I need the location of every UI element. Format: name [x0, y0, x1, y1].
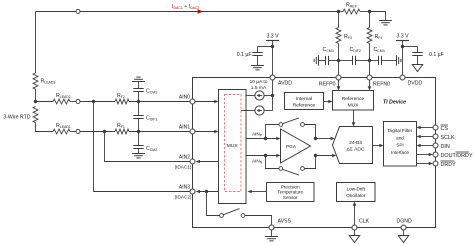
ground right of CCM4 [397, 55, 401, 65]
svg-text:AIN3: AIN3 [179, 185, 190, 191]
ground above CCM1 [132, 77, 145, 81]
pin AIN0 [179, 95, 195, 105]
ground at RREF right [379, 21, 392, 25]
wire RF2 to AIN0 pin [129, 101, 190, 103]
capacitor CCM3 [319, 47, 339, 65]
IC boundary box (TI Device) [193, 78, 436, 228]
svg-text:and: and [396, 135, 404, 140]
node AINP bypass left [264, 137, 267, 140]
ADC 24-bit delta-sigma [333, 127, 373, 164]
wire REFN0 to Reference MUX [368, 80, 372, 91]
block Low-Drift Oscillator [337, 183, 376, 202]
ground below CCM2 [132, 154, 145, 158]
svg-text:10 µA to: 10 µA to [249, 79, 267, 85]
pin DRDY [417, 161, 457, 168]
wire to AVDD bypass cap [258, 46, 273, 48]
svg-text:AVDD: AVDD [278, 81, 292, 87]
ground triangle below DVDD cap [412, 65, 422, 72]
wire left vertical to RLEAD3 [35, 12, 37, 74]
label TI Device [383, 100, 406, 106]
pin DGND [397, 219, 413, 231]
wire MUX to AIN2 out [196, 160, 219, 164]
current direction arrow (red) [198, 9, 204, 13]
wire IDAC2 to MUX dashed path [241, 110, 255, 112]
pin AVDD [270, 75, 292, 87]
node CDIF2/RF4 [368, 59, 371, 62]
resistor RREF [343, 3, 360, 14]
resistor RLEAD1 [53, 123, 71, 134]
svg-text:(IDAC2): (IDAC2) [175, 195, 192, 200]
label IDAC1 + IDAC2 (red) [172, 4, 200, 10]
supply 3.3V DVDD [396, 34, 409, 78]
node AINN bypass left [264, 154, 267, 157]
node CDIF1 bottom [137, 130, 140, 133]
pin SCLK [417, 134, 455, 141]
switch to AVSS [220, 209, 245, 218]
node AVDD rail IDAC1 [271, 94, 274, 97]
pin CS [417, 125, 449, 132]
resistor RLEAD3 [33, 73, 55, 89]
svg-text:TI Device: TI Device [383, 100, 406, 106]
svg-text:Temperature: Temperature [277, 190, 303, 195]
capacitor CCM2 [133, 132, 157, 154]
block Reference MUX [333, 91, 374, 111]
resistor RTD 3-wire [3, 107, 38, 123]
svg-text:AIN0: AIN0 [179, 95, 190, 101]
svg-text:SCLK: SCLK [441, 135, 455, 141]
svg-text:SPI: SPI [396, 143, 403, 148]
capacitor CCM4 [370, 47, 397, 65]
wire RF4 to REFN0 [369, 44, 371, 78]
svg-text:3.3 V: 3.3 V [266, 34, 279, 40]
terminal circle on top rail [76, 10, 80, 14]
svg-text:DGND: DGND [397, 219, 413, 225]
wire terminal to RF2 [80, 101, 115, 103]
wire AIN0 into MUX [195, 100, 219, 104]
svg-text:Reference: Reference [342, 96, 365, 102]
svg-text:DRDY: DRDY [441, 162, 457, 168]
current source IDAC2 [255, 106, 264, 115]
capacitor CDIF2 [339, 47, 370, 65]
terminal circle row AIN1 [76, 130, 80, 134]
ground left of CCM3 [314, 55, 318, 65]
switch PGA bypass top [279, 118, 305, 127]
terminal circle row AIN0 [76, 100, 80, 104]
node junction to AIN2 branch [103, 130, 106, 133]
pin AIN1 [179, 125, 195, 135]
wire terminal to RF1 [80, 131, 115, 133]
label 10 uA to 1.5 mA [249, 79, 267, 91]
wire REFP0 to Reference MUX [337, 80, 341, 91]
svg-text:MUX: MUX [227, 143, 239, 149]
wire PGA bypass bottom right [304, 156, 315, 169]
capacitor CDIF1 [133, 102, 157, 132]
svg-text:Reference: Reference [293, 103, 316, 109]
svg-text:Low-Drift: Low-Drift [347, 186, 366, 191]
svg-text:Oscillator: Oscillator [346, 193, 366, 198]
wire IDAC2 to AVDD rail [264, 110, 272, 112]
label AINP [252, 132, 263, 138]
label AINN [252, 159, 263, 165]
wire node to RLEAD2 [36, 101, 54, 103]
pin DVDD [400, 75, 422, 87]
wire IDAC1 to AVDD rail [264, 95, 272, 97]
wire PGA bypass bottom left [266, 156, 279, 169]
pin DIN [417, 143, 450, 150]
ground triangle below CLK [349, 230, 359, 243]
resistor RLEAD2 [53, 93, 71, 104]
resistor RF4 [367, 12, 382, 44]
capacitor 0.1uF AVDD [237, 47, 263, 66]
svg-text:Sensor: Sensor [283, 195, 298, 200]
svg-text:DOUT/DRDY: DOUT/DRDY [441, 153, 473, 159]
svg-text:Interface: Interface [391, 150, 409, 155]
wire ADC to Digital Filter [373, 144, 384, 148]
pin DOUT/DRDY [417, 152, 473, 159]
resistor RF1 [115, 123, 129, 134]
wire branch to AIN2 [105, 132, 191, 162]
svg-text:REFP0: REFP0 [319, 82, 336, 88]
pin REFN0 [367, 75, 390, 88]
node AIN3 internal junction [205, 190, 208, 193]
svg-text:DVDD: DVDD [408, 81, 423, 87]
svg-text:3-Wire RTD: 3-Wire RTD [3, 115, 31, 121]
node RREF right [360, 10, 371, 13]
wire top rail from RTD to RREF [36, 11, 339, 13]
wire RTD bottom corner [36, 123, 54, 132]
resistor RF2 [115, 93, 129, 104]
svg-text:0.1 µF: 0.1 µF [237, 52, 252, 58]
wire RLEAD1 to terminal [70, 131, 76, 133]
block Digital Filter and SPI Interface [384, 122, 417, 167]
svg-text:Internal: Internal [296, 96, 312, 102]
svg-text:3.3 V: 3.3 V [396, 34, 409, 40]
wire RLEAD2 to terminal [70, 101, 76, 103]
svg-text:CS: CS [441, 126, 449, 132]
wire AINP MUX to PGA [246, 137, 281, 141]
wire CLK to oscillator [353, 202, 357, 226]
ground triangle below DGND [398, 230, 408, 243]
wire MUX to AIN3 out [196, 190, 219, 194]
ground below AVSS [265, 230, 278, 241]
resistor RF3 [336, 12, 352, 44]
capacitor CCM1 [133, 82, 157, 102]
op-amp PGA [281, 129, 311, 163]
wire PGA out N to ADC [316, 154, 337, 158]
wire Reference MUX to ADC [352, 110, 356, 127]
node RREF left [337, 10, 343, 13]
svg-text:ΔΣ ADC: ΔΣ ADC [347, 147, 365, 153]
svg-text:MUX: MUX [348, 103, 360, 109]
current source IDAC1 [255, 91, 264, 100]
node PGA out N [314, 154, 317, 157]
svg-text:Precision: Precision [281, 184, 300, 189]
node junction to AIN3 branch [92, 100, 95, 103]
node AVDD bypass [271, 45, 274, 48]
svg-text:AIN2: AIN2 [179, 155, 190, 161]
wire PGA out P to ADC [316, 137, 335, 141]
wire RF3 to REFP0 [338, 44, 340, 78]
svg-text:AVSS: AVSS [278, 219, 292, 225]
wire temp sensor to MUX [248, 190, 267, 194]
svg-text:PGA: PGA [286, 144, 297, 149]
wire RF1 to AIN1 pin [129, 131, 190, 133]
node RTD top junction [34, 100, 37, 103]
pin CLK [352, 219, 370, 231]
node PGA out P [314, 137, 317, 140]
node DVDD bypass [401, 45, 404, 48]
wire RREF right to ground [370, 12, 386, 21]
pin AIN2 (IDAC1) [175, 155, 195, 170]
node CCM3/RF3 [337, 59, 340, 62]
wire PGA bypass top right [304, 125, 315, 139]
wire AIN3 junction to AVSS switch [207, 192, 220, 216]
wire branch to AIN3 [94, 102, 191, 192]
wire switch to AVSS pin [245, 216, 272, 226]
switch PGA bypass bottom [279, 167, 305, 176]
wire AIN1 into MUX [195, 130, 219, 134]
MUX box [219, 90, 247, 204]
supply 3.3V AVDD [266, 34, 279, 78]
wire Internal Reference to Reference MUX [324, 100, 333, 104]
svg-text:Digital Filter: Digital Filter [388, 128, 413, 133]
svg-text:CLK: CLK [359, 219, 370, 225]
wire PGA bypass top left [266, 125, 279, 139]
pin AIN3 (IDAC2) [175, 185, 195, 200]
wire to DVDD bypass cap [403, 46, 418, 48]
IDAC routing red dashed path [225, 95, 242, 192]
svg-text:0.1 µF: 0.1 µF [429, 52, 444, 58]
block Precision Temperature Sensor [267, 183, 315, 202]
wire RLEAD3 to node [35, 89, 37, 101]
pin AVSS [269, 219, 291, 231]
pin REFP0 [319, 75, 341, 88]
node CDIF1 top [137, 100, 140, 103]
svg-text:(IDAC1): (IDAC1) [175, 165, 192, 170]
svg-text:DIN: DIN [441, 144, 450, 150]
svg-text:AIN1: AIN1 [179, 125, 190, 131]
ground below AVDD cap [251, 66, 264, 70]
svg-text:REFN0: REFN0 [373, 82, 390, 88]
svg-text:24-Bit: 24-Bit [349, 140, 362, 146]
block Internal Reference [285, 93, 324, 110]
wire IDAC1 to MUX [246, 95, 255, 97]
wire AVDD rail to IDACs [272, 80, 274, 111]
wire AINN MUX to PGA [246, 154, 281, 158]
capacitor 0.1uF DVDD [412, 47, 444, 65]
svg-text:1.5 mA: 1.5 mA [251, 85, 267, 91]
